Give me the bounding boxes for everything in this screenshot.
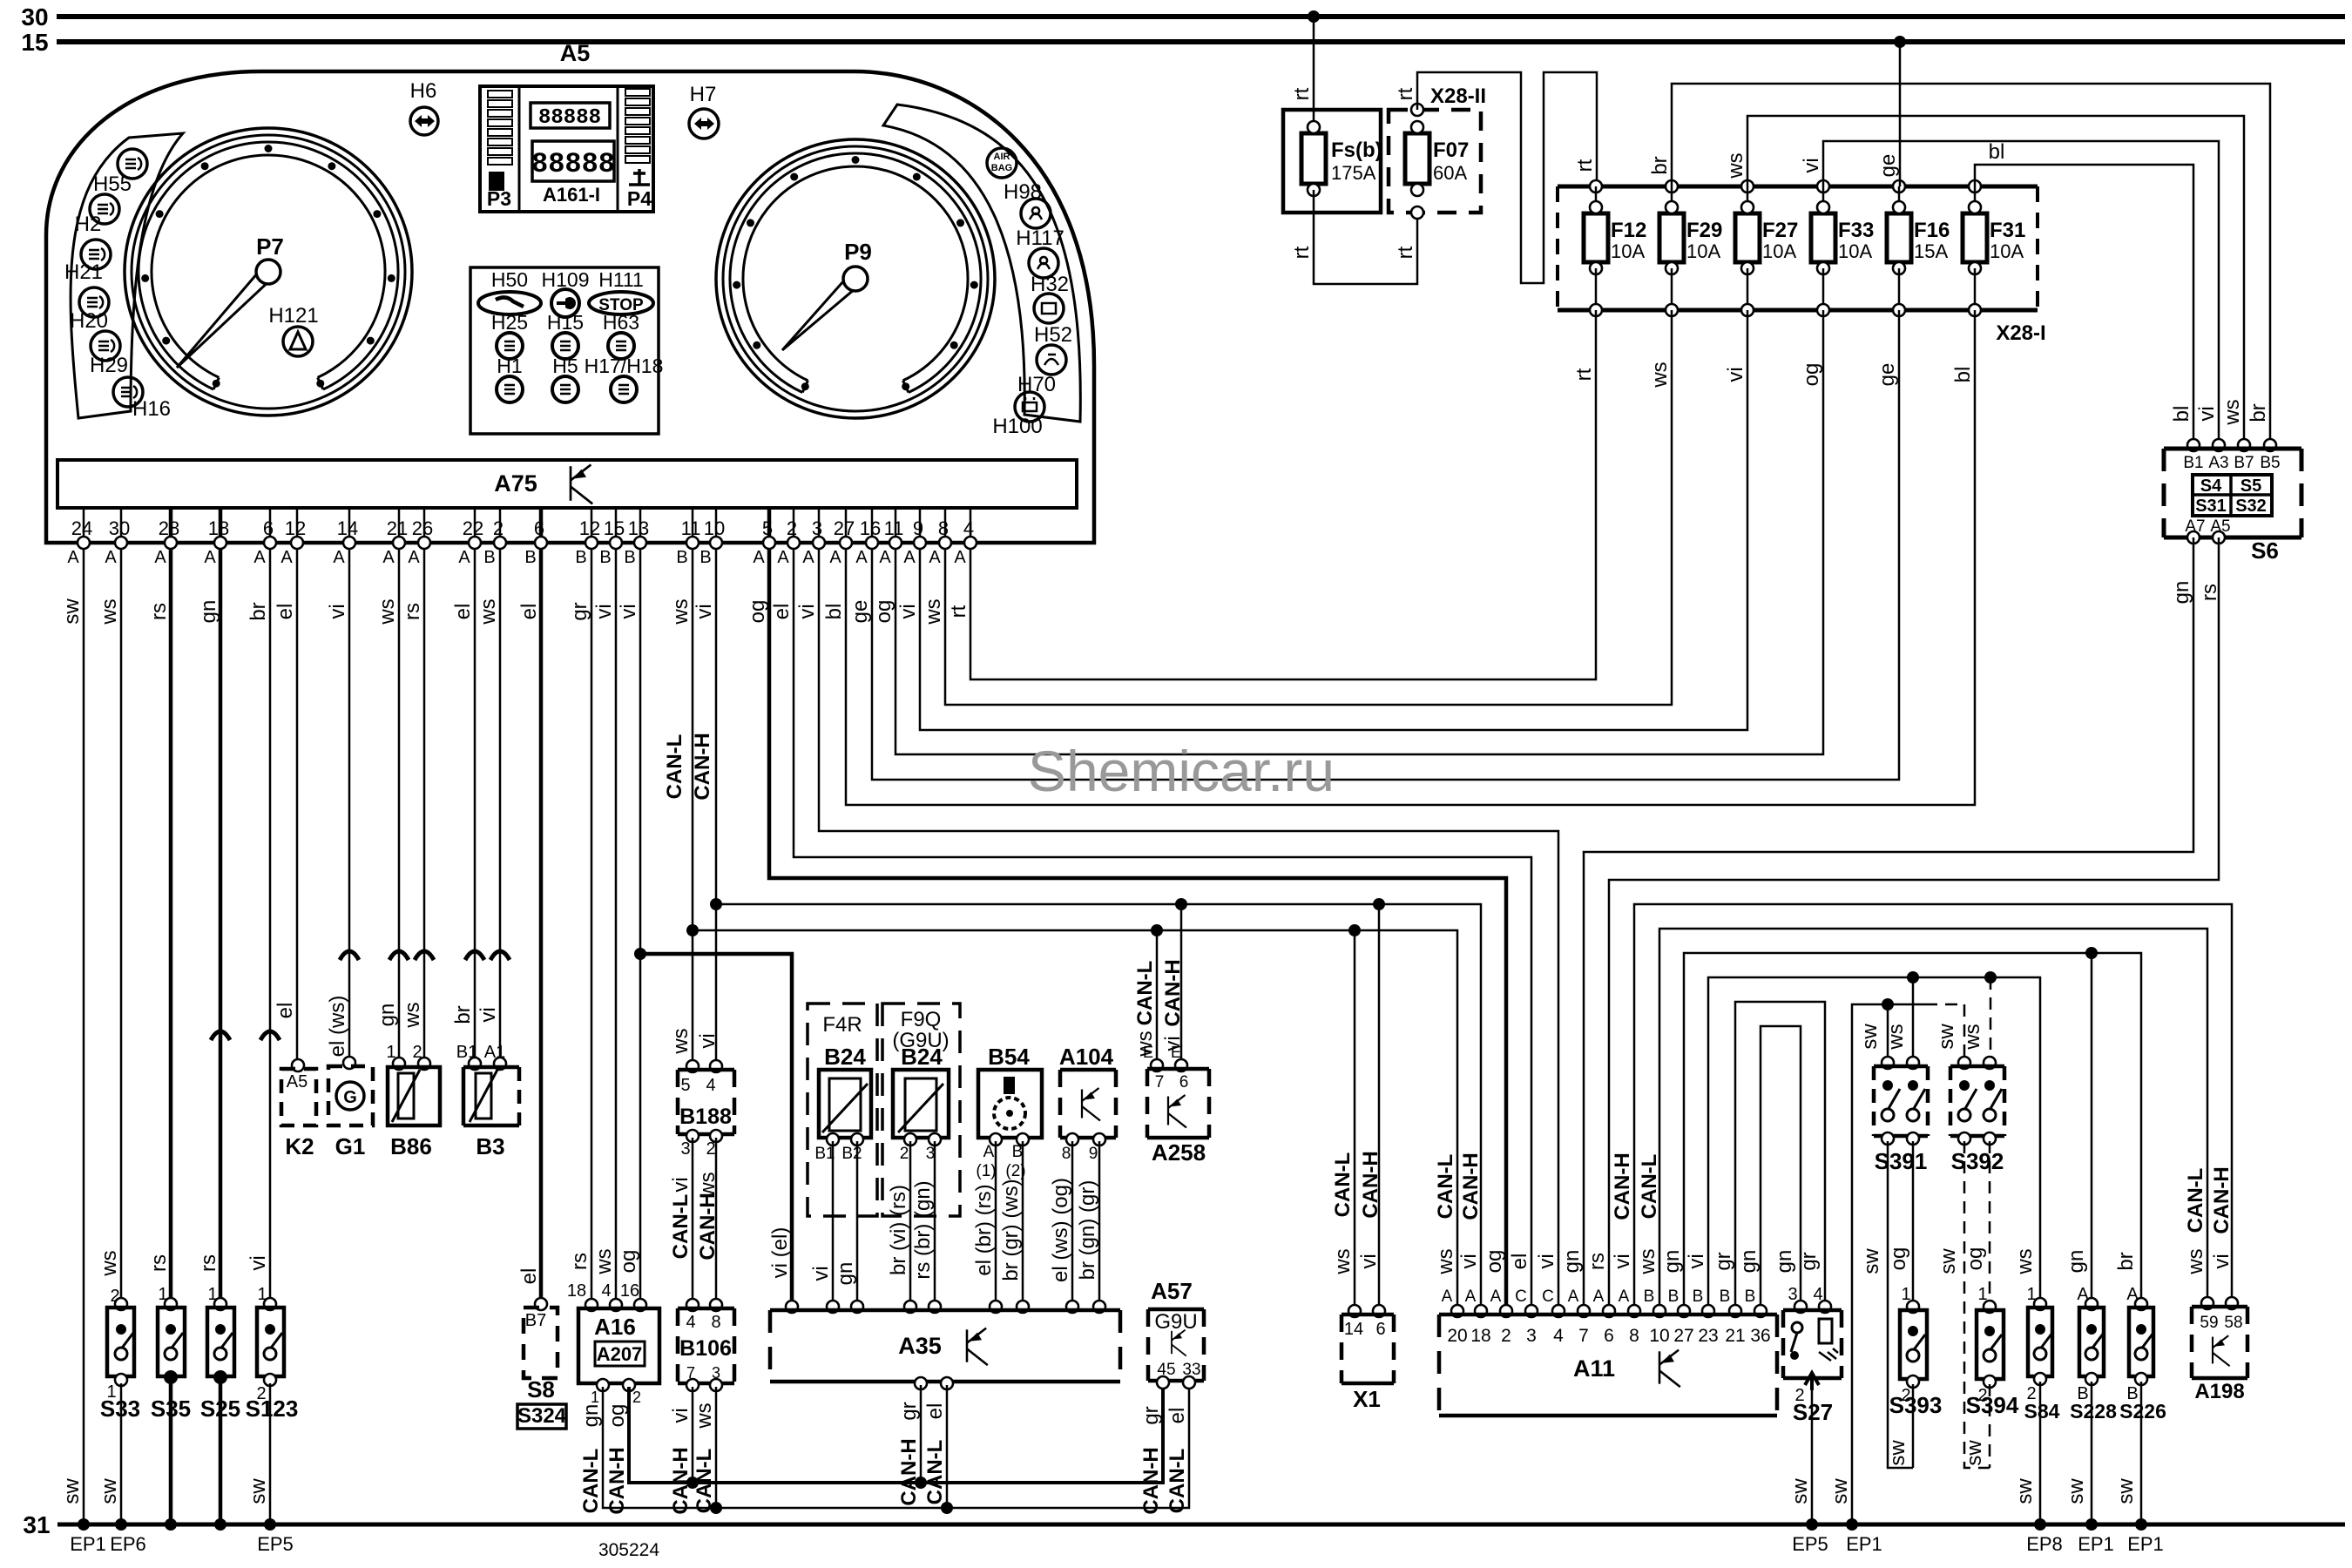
wire S228 to rail 31: [2091, 1382, 2093, 1524]
svg-text:F31: F31: [1990, 219, 2025, 242]
display P4 bar segments: [625, 89, 650, 96]
svg-text:B86: B86: [390, 1133, 432, 1159]
svg-text:vi: vi: [476, 1007, 500, 1022]
indicator H17/H18 icon: [611, 376, 637, 402]
svg-text:EP5: EP5: [257, 1533, 294, 1555]
svg-text:F07: F07: [1433, 139, 1469, 162]
wire F07 to fuse row serpentine: [1417, 72, 1597, 283]
pin 21A of A5 (ws): [398, 508, 401, 543]
svg-text:BAG: BAG: [991, 163, 1012, 173]
svg-text:EP6: EP6: [110, 1533, 146, 1555]
svg-text:rs: rs: [197, 1254, 220, 1272]
svg-text:B: B: [575, 548, 586, 567]
wire CAN-L drop to X1 pin14: [1354, 930, 1356, 1311]
svg-text:A: A: [382, 548, 395, 567]
svg-text:A3: A3: [2208, 454, 2228, 472]
svg-text:30: 30: [21, 3, 48, 30]
engine variant box F4R: [808, 1004, 877, 1216]
wire sw ground feed for S391/S392: [1852, 1004, 1925, 1524]
svg-text:G1: G1: [335, 1133, 366, 1159]
label S324: [517, 1404, 566, 1429]
svg-text:60A: 60A: [1433, 162, 1467, 184]
wire CAN-H drop to X1 pin6: [1378, 904, 1381, 1311]
wire 13B vi to A16 pin16: [639, 549, 642, 1305]
wire F27 feed ws: [1747, 116, 2244, 445]
svg-text:X28-II: X28-II: [1430, 84, 1486, 108]
svg-text:sw: sw: [1858, 1024, 1882, 1050]
switch S392: [1958, 1057, 1970, 1069]
svg-text:Shemicar.ru: Shemicar.ru: [1028, 739, 1335, 803]
indicator H111 icon: [589, 292, 653, 314]
svg-text:9: 9: [1089, 1145, 1098, 1163]
wire fuse og return to cluster pin: [896, 310, 1823, 754]
fuse F12 10A: [1590, 180, 1602, 193]
wire rail 31 (ground): [57, 1523, 2345, 1527]
svg-text:G9U: G9U: [1154, 1310, 1197, 1334]
junction rail30/Fs(b): [1308, 10, 1320, 23]
svg-text:CAN-H: CAN-H: [897, 1438, 921, 1505]
svg-text:S84: S84: [2024, 1400, 2060, 1423]
pin 6A of A5 (br): [269, 508, 272, 543]
wire gn drop to S228: [2091, 953, 2093, 1304]
svg-text:ws: ws: [1648, 362, 1672, 388]
svg-text:rt: rt: [1290, 246, 1314, 259]
svg-text:S228: S228: [2070, 1400, 2117, 1423]
svg-text:A: A: [1593, 1288, 1605, 1306]
svg-text:S324: S324: [517, 1404, 567, 1428]
svg-text:H21: H21: [64, 260, 103, 284]
svg-text:sw: sw: [60, 598, 84, 625]
svg-text:B1: B1: [2183, 454, 2203, 472]
wire CAN-H bus upper: [716, 904, 1481, 1311]
svg-text:vi: vi: [1457, 1254, 1481, 1268]
svg-text:gr: gr: [568, 602, 591, 620]
svg-text:4: 4: [686, 1313, 695, 1332]
svg-text:rs (br) (gn): rs (br) (gn): [911, 1180, 935, 1279]
wire S391 left pin sw loop: [1888, 1141, 1913, 1468]
generator G1: [343, 1057, 355, 1069]
pin 4A of A5 (rt): [970, 508, 972, 543]
svg-text:6: 6: [1179, 1073, 1189, 1092]
svg-text:rs: rs: [147, 1254, 171, 1272]
pin 11A of A5 (og): [895, 508, 897, 543]
svg-text:5: 5: [680, 1076, 690, 1095]
indicator H52 circle: [1037, 345, 1066, 375]
svg-text:S31: S31: [2195, 497, 2227, 516]
svg-text:br (gr) (ws): br (gr) (ws): [999, 1179, 1023, 1281]
indicator H70 circle: [1015, 392, 1044, 422]
svg-text:A: A: [802, 548, 814, 567]
svg-text:gn: gn: [834, 1262, 857, 1286]
wire S6 A5 rs to A11 pin6: [1609, 537, 2219, 1311]
svg-text:H1: H1: [497, 355, 522, 377]
svg-text:15A: 15A: [1914, 240, 1948, 262]
wire CAN-H ext A11 pin8 to A198 pin58: [1634, 904, 2232, 1311]
svg-text:og: og: [746, 600, 769, 624]
svg-text:S4: S4: [2200, 476, 2222, 496]
svg-text:vi: vi: [1535, 1254, 1558, 1268]
svg-text:3: 3: [680, 1139, 690, 1159]
pin 24A of A5 (sw): [83, 508, 85, 543]
svg-text:8: 8: [711, 1313, 720, 1332]
svg-text:ws: ws: [1724, 152, 1747, 179]
wire S35 to rail 31: [169, 1380, 173, 1524]
svg-text:H5: H5: [552, 355, 578, 377]
svg-text:br: br: [1648, 156, 1672, 174]
wire fuse ge return to cluster pin: [872, 310, 1899, 780]
svg-text:EP1: EP1: [2127, 1533, 2164, 1555]
svg-text:4: 4: [1553, 1326, 1564, 1346]
svg-text:vi: vi: [1357, 1254, 1381, 1268]
svg-text:br (vi) (rs): br (vi) (rs): [887, 1185, 910, 1275]
svg-text:vi (el): vi (el): [768, 1227, 792, 1279]
svg-text:og: og: [1963, 1247, 1987, 1271]
display P3 bar segments: [488, 91, 512, 98]
svg-text:6: 6: [1375, 1320, 1385, 1339]
svg-text:A: A: [67, 548, 79, 567]
svg-text:EP5: EP5: [1792, 1533, 1828, 1555]
fuse F27 10A: [1741, 180, 1754, 193]
svg-text:7: 7: [1578, 1326, 1589, 1346]
svg-text:4: 4: [601, 1281, 611, 1301]
svg-text:A: A: [954, 548, 966, 567]
svg-text:23: 23: [1698, 1326, 1718, 1346]
svg-text:sw: sw: [1963, 1440, 1986, 1466]
svg-text:vi: vi: [795, 604, 819, 618]
wire 12B gr to A16 pin18: [591, 549, 593, 1305]
svg-text:CAN-L: CAN-L: [669, 1194, 693, 1260]
svg-text:rs: rs: [401, 603, 424, 620]
wire ws drop to S391: [1912, 977, 1915, 1063]
indicator H50 icon: [478, 292, 541, 314]
wire S25 to rail 31: [219, 1380, 223, 1524]
switch S391: [1882, 1057, 1894, 1069]
svg-text:6: 6: [1604, 1326, 1614, 1346]
svg-text:S394: S394: [1966, 1392, 2019, 1418]
svg-text:vi: vi: [809, 1266, 833, 1281]
svg-text:H121: H121: [268, 304, 318, 328]
svg-text:H117: H117: [1016, 226, 1064, 250]
svg-text:A: A: [829, 548, 841, 567]
svg-text:S392: S392: [1951, 1148, 2004, 1174]
wire CAN-L drop to A258 pin7: [1156, 930, 1159, 1064]
svg-text:A: A: [105, 548, 117, 567]
wire B188 pin3 to B106 pin4: [692, 1138, 694, 1305]
svg-text:B: B: [1012, 1143, 1024, 1161]
svg-text:3: 3: [926, 1145, 936, 1163]
svg-text:8: 8: [1629, 1326, 1639, 1346]
fuse F31 10A: [1969, 180, 1981, 193]
fuse F33 10A: [1817, 180, 1829, 193]
svg-text:A16: A16: [594, 1314, 636, 1340]
svg-text:vi: vi: [247, 1255, 270, 1270]
gauge P7 (tachometer): [125, 128, 412, 416]
svg-text:rt: rt: [1290, 87, 1314, 100]
svg-text:ws: ws: [98, 598, 121, 625]
svg-text:B106: B106: [679, 1336, 732, 1361]
svg-text:CAN-H: CAN-H: [696, 1193, 720, 1260]
wire arrow S123: [260, 1031, 280, 1040]
wire B24(F9Q) pin3 to A35: [934, 1141, 936, 1307]
svg-text:ge: ge: [1876, 154, 1900, 178]
svg-text:br: br: [2247, 403, 2270, 422]
svg-text:A258: A258: [1152, 1139, 1206, 1166]
svg-text:ws: ws: [1331, 1248, 1355, 1274]
svg-text:CAN-H: CAN-H: [1611, 1152, 1634, 1220]
svg-text:H17/H18: H17/H18: [585, 355, 664, 377]
svg-text:A5: A5: [560, 40, 591, 66]
svg-text:7: 7: [1155, 1073, 1165, 1092]
svg-text:15: 15: [21, 29, 48, 56]
wire 26A rs to B86 pin2: [423, 549, 426, 1062]
wire F29 feed br: [1672, 84, 2270, 445]
svg-text:B24: B24: [901, 1044, 943, 1070]
svg-text:vi: vi: [669, 1408, 693, 1423]
svg-text:B: B: [700, 548, 711, 567]
svg-text:F29: F29: [1686, 219, 1722, 242]
svg-text:CAN-L: CAN-L: [579, 1449, 603, 1514]
indicator H109 icon: [551, 289, 579, 317]
svg-text:ws: ws: [401, 1002, 424, 1028]
svg-text:P4: P4: [627, 187, 652, 210]
junction sw/S391: [1882, 998, 1894, 1010]
svg-text:gn: gn: [375, 1004, 399, 1027]
svg-text:CAN-L: CAN-L: [2184, 1168, 2207, 1233]
left indicator band arc: [71, 133, 183, 418]
wire 14A vi to G1: [348, 549, 351, 1062]
svg-text:A: A: [458, 548, 470, 567]
svg-text:rs: rs: [1585, 1253, 1609, 1270]
wire 24A sw to rail 31: [83, 549, 85, 1524]
svg-text:rt: rt: [1572, 368, 1596, 381]
svg-text:A57: A57: [1151, 1278, 1193, 1304]
svg-text:bl: bl: [1989, 140, 2005, 164]
svg-text:vi: vi: [896, 604, 920, 618]
wire S392 right pin to S394 (dashed): [1989, 1141, 1991, 1304]
wire 2B ws to B3 pin A1: [499, 549, 502, 1062]
pin 30A of A5 (ws): [120, 508, 123, 543]
pin 10B of A5 (vi): [715, 508, 718, 543]
connector S8: [535, 1298, 547, 1310]
relay K2: [292, 1059, 304, 1071]
wire rail 15 (ignition): [57, 39, 2345, 44]
svg-text:H20: H20: [70, 309, 108, 333]
svg-text:CAN-L: CAN-L: [663, 734, 686, 800]
wire F31 feed bl: [1975, 165, 2193, 445]
svg-text:ws: ws: [1884, 1024, 1908, 1050]
wire A35 gr to CAN-H low bus: [920, 1385, 923, 1483]
wire 22A el to B3 pin B1: [474, 549, 476, 1062]
wire A11 pin36 gn to S27 pin3: [1761, 1026, 1801, 1311]
svg-text:og: og: [872, 600, 896, 624]
svg-text:A: A: [333, 548, 345, 567]
junction CAN-H/A258: [1175, 898, 1187, 910]
pin 3A of A5 (vi): [818, 508, 821, 543]
svg-text:10: 10: [1649, 1326, 1669, 1346]
svg-text:A: A: [1619, 1288, 1630, 1306]
wire rail30 to Fs(b): [1313, 17, 1315, 127]
svg-text:B: B: [676, 548, 687, 567]
svg-text:20: 20: [1447, 1326, 1467, 1346]
svg-text:gn: gn: [579, 1404, 603, 1428]
svg-text:18: 18: [567, 1281, 586, 1301]
svg-text:S226: S226: [2119, 1400, 2166, 1423]
wire 6B el to S8: [539, 549, 544, 1302]
svg-text:gr: gr: [897, 1402, 921, 1420]
svg-text:sw: sw: [247, 1478, 270, 1504]
svg-text:ws: ws: [592, 1248, 616, 1274]
svg-text:F9Q: F9Q: [901, 1008, 942, 1031]
wire CAN-H drop to A258 pin6: [1180, 904, 1183, 1064]
engine variant box F9Q (G9U): [882, 1004, 960, 1216]
wire arrow S25: [211, 1031, 230, 1040]
svg-text:10A: 10A: [1990, 240, 2024, 262]
indicator H32 circle: [1034, 294, 1064, 323]
indicator H5 icon: [552, 376, 578, 402]
svg-text:(1): (1): [976, 1162, 996, 1180]
svg-text:gn: gn: [1660, 1250, 1684, 1274]
svg-text:og: og: [617, 1250, 640, 1274]
svg-text:H100: H100: [992, 415, 1042, 438]
svg-text:H55: H55: [93, 172, 132, 196]
svg-text:B3: B3: [476, 1133, 504, 1159]
svg-text:P3: P3: [487, 187, 511, 210]
svg-text:A: A: [983, 1143, 995, 1161]
svg-text:vi: vi: [696, 1033, 720, 1048]
svg-text:B: B: [483, 548, 495, 567]
svg-text:el: el: [770, 604, 794, 620]
wire S123 to rail 31: [269, 1383, 272, 1524]
svg-text:A: A: [1465, 1288, 1477, 1306]
pin 26A of A5 (rs): [423, 508, 426, 543]
wire A11 pin27 gn to S228/S226: [1684, 953, 2141, 1311]
svg-text:S123: S123: [246, 1396, 299, 1422]
svg-text:CAN-H: CAN-H: [1139, 1447, 1163, 1514]
wire A104 pin9 to A35: [1098, 1141, 1101, 1307]
wire 3A vi to A11 pin4: [819, 549, 1558, 1311]
indicator lamp H21 circle: [79, 287, 109, 317]
svg-text:B7: B7: [2234, 454, 2254, 472]
svg-text:CAN-H: CAN-H: [1459, 1152, 1483, 1220]
svg-text:ws: ws: [922, 598, 945, 625]
wire fuse ws return to cluster pin: [945, 310, 1672, 705]
wire A11 pin21 gr to S27 pin4: [1735, 1002, 1825, 1311]
indicator lamp H20 circle: [91, 331, 120, 361]
svg-text:sw: sw: [2013, 1478, 2037, 1504]
svg-text:F12: F12: [1611, 219, 1646, 242]
pin 22A of A5 (el): [474, 508, 476, 543]
svg-text:el: el: [517, 1268, 541, 1285]
junction CAN-L bus: [686, 924, 699, 936]
svg-text:gr: gr: [1712, 1252, 1735, 1270]
wire sw drop to S391: [1887, 1004, 1889, 1063]
svg-text:P9: P9: [844, 239, 872, 265]
svg-text:EP8: EP8: [2026, 1533, 2063, 1555]
svg-text:H52: H52: [1034, 323, 1072, 347]
svg-text:A35: A35: [898, 1333, 942, 1359]
wire fuse vi return to cluster pin: [920, 310, 1747, 730]
wire S393 to sw loop: [1912, 1384, 1915, 1468]
svg-text:ws: ws: [98, 1250, 121, 1276]
pin 12A of A5 (el): [296, 508, 299, 543]
wire fuse rt return to cluster pin: [970, 310, 1596, 679]
svg-text:H2: H2: [75, 213, 102, 236]
svg-text:B: B: [1693, 1288, 1704, 1306]
indicator H25 icon: [497, 333, 523, 359]
wire 12A el to K2: [296, 549, 299, 1065]
svg-text:27: 27: [1673, 1326, 1693, 1346]
svg-text:F4R: F4R: [822, 1013, 862, 1037]
wire B24(F9Q) pin2 to A35: [909, 1141, 912, 1307]
indicator lamp H2 circle: [81, 240, 111, 269]
svg-text:K2: K2: [285, 1133, 314, 1159]
svg-text:C: C: [1515, 1288, 1527, 1306]
svg-text:S391: S391: [1875, 1148, 1928, 1174]
svg-text:S5: S5: [2240, 476, 2261, 496]
svg-text:A: A: [855, 548, 868, 567]
svg-text:vi: vi: [1800, 158, 1823, 172]
svg-text:el: el: [1166, 1408, 1189, 1424]
indicator H1 icon: [497, 376, 523, 402]
svg-text:bl: bl: [822, 604, 846, 620]
fuse box X28-I: [1558, 185, 2038, 189]
pin 12B of A5 (gr): [591, 508, 593, 543]
svg-text:EP1: EP1: [2078, 1533, 2114, 1555]
svg-text:S32: S32: [2235, 497, 2267, 516]
svg-text:og: og: [1887, 1247, 1910, 1271]
svg-text:10A: 10A: [1686, 240, 1720, 262]
connector X28-II: [1389, 110, 1481, 213]
svg-text:el: el: [274, 604, 297, 620]
svg-text:2: 2: [632, 1389, 641, 1406]
svg-text:H6: H6: [410, 79, 437, 103]
svg-text:S393: S393: [1889, 1392, 1943, 1418]
svg-text:A: A: [1568, 1288, 1579, 1306]
svg-text:br: br: [451, 1005, 475, 1024]
svg-text:gn: gn: [1737, 1250, 1761, 1274]
svg-text:31: 31: [23, 1511, 50, 1538]
fuse Fs(b) 175A: [1283, 110, 1381, 213]
junction rail15/F16 feed: [1894, 36, 1906, 48]
svg-text:H15: H15: [547, 311, 584, 334]
wire branch to A35 vi(el): [640, 954, 792, 1307]
pin 14A of A5 (vi): [348, 508, 351, 543]
svg-text:CAN-H: CAN-H: [1161, 959, 1185, 1026]
svg-text:A: A: [879, 548, 891, 567]
svg-text:sw: sw: [1788, 1478, 1812, 1504]
svg-text:175A: 175A: [1331, 162, 1376, 184]
svg-text:2: 2: [1501, 1326, 1511, 1346]
svg-text:ws: ws: [476, 598, 500, 625]
fuse F07 60A: [1405, 133, 1429, 184]
svg-text:B: B: [599, 548, 611, 567]
svg-text:F27: F27: [1762, 219, 1798, 242]
svg-text:A161-I: A161-I: [543, 184, 600, 206]
S27 wiper arrow: [1805, 1373, 1819, 1390]
svg-text:A: A: [204, 548, 216, 567]
svg-text:P7: P7: [256, 233, 284, 260]
svg-text:vi: vi: [669, 1177, 693, 1192]
pin 2B of A5 (ws): [499, 508, 502, 543]
svg-text:sw: sw: [98, 1478, 121, 1504]
svg-text:1: 1: [591, 1389, 599, 1406]
svg-text:el: el: [451, 604, 475, 620]
warning icon box: [470, 267, 659, 434]
fuse F29 10A: [1666, 180, 1678, 193]
svg-text:59: 59: [2200, 1314, 2218, 1332]
wire F16 feed ge from rail 15: [1899, 42, 1902, 186]
svg-text:CAN-H: CAN-H: [669, 1447, 693, 1514]
